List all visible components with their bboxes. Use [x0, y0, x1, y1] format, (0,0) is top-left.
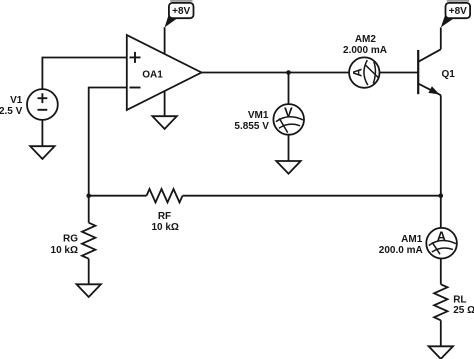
ammeter AM2	[349, 57, 379, 87]
wire V1 to ground	[41, 120, 43, 146]
wire RF to emitter node	[183, 195, 441, 197]
node emitter junction	[439, 193, 444, 198]
svg-text:10 kΩ: 10 kΩ	[151, 222, 178, 233]
power flag +8V (Q1 collector)	[441, 0, 470, 27]
svg-text:OA1: OA1	[142, 70, 163, 81]
wire VM1 to ground	[288, 135, 290, 161]
node feedback junction	[86, 193, 91, 198]
svg-text:AM1: AM1	[401, 234, 423, 245]
wire OA1 - input to feedback node	[89, 88, 127, 196]
wire node to RF	[89, 195, 147, 197]
op-amp OA1	[127, 35, 202, 110]
power flag +8V (OA1 supply)	[165, 0, 194, 27]
ground (RL)	[429, 346, 453, 359]
svg-text:A: A	[437, 229, 446, 243]
svg-text:+8V: +8V	[172, 6, 190, 17]
node VM1 tap	[286, 70, 291, 75]
voltmeter VM1	[273, 104, 304, 135]
wire node to AM1	[440, 196, 442, 228]
wire node to VM1	[288, 73, 290, 105]
svg-text:2.5 V: 2.5 V	[0, 106, 23, 117]
svg-text:RG: RG	[63, 234, 78, 245]
ground (V1)	[30, 146, 54, 159]
svg-text:A: A	[351, 68, 365, 77]
ground (VM1)	[276, 161, 300, 174]
svg-text:200.0 mA: 200.0 mA	[379, 245, 423, 256]
transistor Q1	[418, 49, 441, 95]
wire V1 top to OA1 + input	[42, 58, 126, 90]
wire OA1 ground stub	[164, 91, 166, 116]
wire AM2 to Q1 base	[379, 72, 418, 74]
svg-text:+8V: +8V	[449, 6, 467, 17]
wire Q1 collector to +8V	[440, 27, 442, 49]
svg-text:V1: V1	[10, 95, 23, 106]
svg-text:10 kΩ: 10 kΩ	[51, 245, 78, 256]
resistor RF	[147, 189, 183, 202]
svg-text:2.000 mA: 2.000 mA	[343, 45, 387, 56]
wire node to RG	[88, 196, 90, 223]
wire OA1 output	[202, 72, 350, 74]
ground (OA1)	[152, 116, 176, 129]
svg-text:5.855 V: 5.855 V	[234, 121, 269, 132]
svg-text:AM2: AM2	[355, 34, 377, 45]
svg-text:Q1: Q1	[442, 69, 456, 80]
svg-text:RF: RF	[158, 211, 171, 222]
wire AM1 to RL	[440, 259, 442, 285]
wire RL to ground	[440, 320, 442, 346]
svg-text:V: V	[284, 105, 293, 120]
ammeter AM1	[426, 228, 457, 259]
ground (RG)	[77, 284, 101, 297]
resistor RL	[434, 284, 447, 320]
svg-text:25 Ω: 25 Ω	[453, 305, 474, 316]
wire RG to ground	[88, 259, 90, 285]
resistor RG	[82, 223, 95, 259]
voltage source V1	[27, 89, 58, 120]
svg-text:RL: RL	[453, 295, 466, 306]
svg-text:VM1: VM1	[248, 110, 269, 121]
wire Q1 emitter down	[440, 95, 442, 196]
wire OA1 supply stub	[164, 27, 166, 54]
